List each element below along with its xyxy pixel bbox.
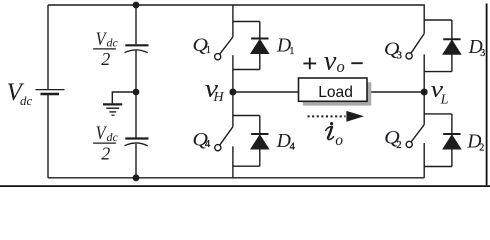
wire: capacitor leg below bottom capacitor: [135, 144, 137, 178]
wire: D3 branch top: [424, 19, 452, 21]
label io: i (body): [328, 127, 332, 138]
node: bottom rail / capacitor junction dot: [133, 174, 140, 181]
switch Q2: open arm: [411, 125, 424, 142]
output current io: arrow head: [346, 111, 364, 122]
svg-text:1: 1: [289, 46, 294, 57]
svg-text:H: H: [213, 90, 225, 105]
diode D4: cathode bar: [251, 133, 268, 135]
wire: Q4 upper stub from node vH: [232, 92, 234, 127]
wire: node vH to Load: [233, 91, 299, 93]
wire: capacitor leg above top capacitor: [135, 5, 137, 44]
svg-text:Load: Load: [318, 84, 353, 101]
svg-text:2: 2: [101, 143, 110, 163]
svg-text:3: 3: [397, 50, 402, 61]
switch Q3: contact circle: [406, 53, 412, 59]
capacitor C2 (Vdc/2 bottom): flat plate: [125, 137, 148, 139]
label io: i (exit tail): [328, 137, 334, 140]
switch Q4: open arm: [220, 127, 233, 146]
diode D3: cathode bar: [443, 38, 460, 40]
capacitor C1 (Vdc/2 top): flat plate: [125, 44, 148, 46]
svg-text:L: L: [440, 92, 449, 107]
ground: bar 2: [106, 107, 119, 109]
label Vdc/2 bottom: fraction bar: [93, 142, 116, 144]
switch Q1: contact circle: [215, 54, 221, 60]
diode D1: cathode bar: [251, 38, 268, 40]
svg-text:4: 4: [205, 139, 211, 150]
wire: Q2 upper stub from node vL: [423, 92, 425, 125]
node vL junction dot: [421, 89, 428, 96]
node vH junction dot: [229, 89, 236, 96]
label io: i (dot): [330, 122, 333, 125]
node: top rail / capacitor junction dot: [133, 2, 140, 9]
diode D1: triangle: [251, 40, 269, 54]
svg-text:v: v: [324, 45, 337, 76]
wire: bottom DC rail: [48, 177, 424, 179]
switch Q3: open arm: [411, 34, 424, 54]
diode D2: cathode bar: [443, 133, 460, 135]
label io: i (entry flag): [326, 127, 332, 131]
wire: D2 branch bottom: [424, 166, 452, 168]
svg-text:dc: dc: [107, 36, 119, 50]
battery Vdc: short thick negative plate: [41, 93, 60, 96]
capacitor C2 (Vdc/2 bottom): curved plate: [125, 143, 148, 146]
wire: D1 branch bottom: [233, 69, 260, 71]
wire: Q2 lower stub to bottom rail: [423, 143, 425, 178]
svg-text:o: o: [335, 132, 343, 149]
Load box: [299, 78, 368, 101]
svg-text:4: 4: [290, 142, 296, 153]
ground: bar 1: [103, 103, 122, 105]
svg-text:1: 1: [206, 45, 211, 56]
wire: D4 branch top: [233, 115, 260, 117]
battery Vdc: long positive plate: [36, 89, 65, 91]
figure frame: bottom border: [0, 185, 490, 187]
wire: D2 branch top: [424, 113, 452, 115]
diode D2: triangle: [443, 135, 461, 149]
svg-text:dc: dc: [20, 93, 33, 108]
Load box: drop shadow: [303, 82, 372, 105]
label output voltage: plus sign: [303, 58, 316, 70]
wire: D2 vertical: [451, 114, 453, 167]
label output voltage: minus sign: [351, 62, 362, 64]
switch Q4: contact circle: [215, 145, 221, 151]
wire: Load to node vL: [367, 91, 424, 93]
svg-text:2: 2: [396, 140, 401, 151]
wire: left vertical (battery bottom side): [47, 95, 49, 178]
ground: bar 4: [111, 114, 114, 116]
svg-text:2: 2: [101, 49, 110, 69]
wire: D4 vertical: [259, 116, 261, 167]
svg-text:dc: dc: [107, 130, 119, 144]
svg-text:3: 3: [480, 48, 485, 59]
switch Q1: open arm: [220, 37, 233, 54]
diode D4: triangle: [251, 135, 269, 149]
wire: D1 branch top: [233, 21, 260, 23]
svg-text:2: 2: [479, 143, 484, 154]
wire: Q1 lower stub down to node vH: [232, 55, 234, 92]
node: capacitor midpoint / ground junction dot: [133, 89, 140, 96]
wire: Q3 lower stub down to node vL: [423, 54, 425, 92]
capacitor C1 (Vdc/2 top): curved plate: [125, 50, 148, 53]
wire: capacitor leg between capacitors: [135, 51, 137, 138]
wire: Q1 upper stub: [232, 5, 234, 37]
wire: D3 vertical: [451, 20, 453, 72]
wire: Q4 lower stub to bottom rail: [232, 146, 234, 178]
wire: top DC rail with corner down to right leg: [48, 5, 424, 34]
label Vdc/2 top: fraction bar: [93, 48, 116, 50]
svg-text:o: o: [337, 57, 345, 76]
output current io: dotted arrow shaft: [308, 115, 346, 117]
ground: bar 3: [109, 111, 116, 113]
switch Q2: contact circle: [406, 141, 412, 147]
wire: D1 vertical: [259, 22, 261, 70]
svg-text:D: D: [276, 131, 291, 152]
wire: D4 branch bottom: [233, 165, 260, 167]
wire: left vertical (battery top side): [47, 5, 49, 89]
diode D3: triangle: [443, 40, 461, 54]
ground: stem from midpoint junction: [112, 92, 136, 103]
wire: D3 branch bottom: [424, 71, 452, 73]
figure frame: right border: [486, 4, 488, 186]
